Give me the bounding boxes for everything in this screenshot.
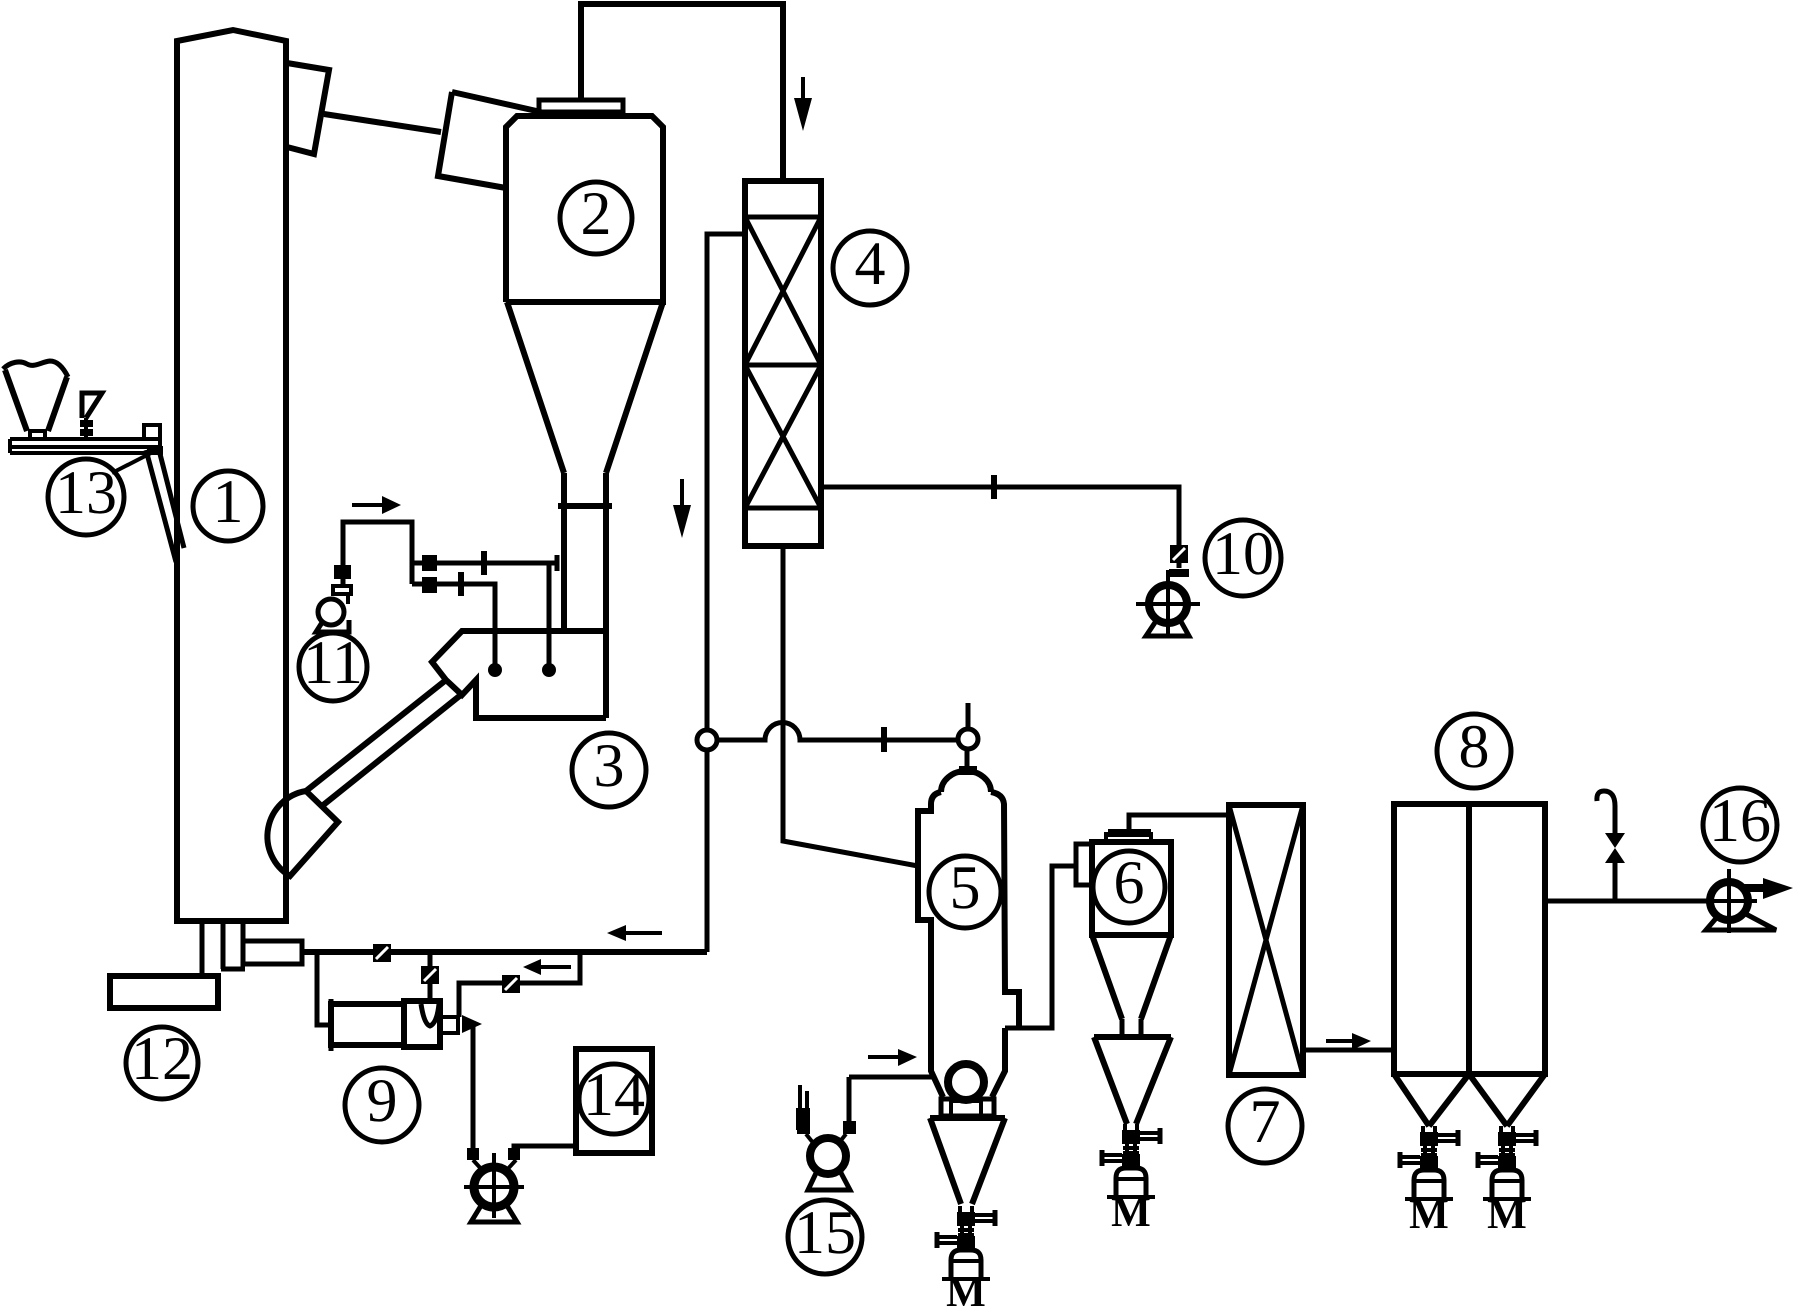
label circle 15	[788, 1200, 862, 1274]
svg-text:1: 1	[213, 468, 244, 536]
feeder 13 drop chute into column 1	[146, 450, 184, 562]
cyclone 2 cone	[507, 302, 663, 473]
gate valve on pipe A	[422, 555, 437, 571]
cyclone 2 body	[506, 116, 663, 302]
junction circle right on recycle pipe	[958, 729, 978, 749]
cyclone 6 lower hopper	[1094, 1037, 1171, 1124]
label circle 9	[345, 1068, 419, 1142]
label circle 1	[193, 471, 263, 541]
right arrow on venturi feed pipe	[868, 1055, 898, 1059]
packed scrubber 4 shell	[745, 181, 821, 546]
scrubber 4 right outlet pipe to pump 10	[821, 487, 1179, 568]
heat exchanger 7 cross diagonals	[1229, 805, 1303, 1075]
rotary valve under vessel 5	[948, 1064, 984, 1100]
label circle 6	[1093, 851, 1165, 923]
fan 16 (blower with cross)	[1710, 882, 1748, 920]
blower under feeder 9 (circle with cross)	[467, 1148, 479, 1160]
cyclone 6 body	[1092, 842, 1171, 935]
junction circle left on recycle pipe	[697, 730, 717, 750]
plus valve on outlet pipe	[991, 475, 997, 499]
svg-text:14: 14	[583, 1061, 645, 1129]
scrubber 4 bottom pipe down to venturi feed	[783, 546, 918, 866]
discharge pipe from blower to box 14	[514, 1146, 576, 1148]
cyclone 6 neck	[1122, 1019, 1141, 1037]
spray water pipe A (upper)	[412, 555, 557, 571]
branch pipe to rotary feeder 9 funnel	[428, 952, 433, 1004]
discharge assembly under cyclone 6	[1102, 1124, 1160, 1236]
inlet pipe to rotary feeder 9	[317, 952, 331, 1025]
square valve on bypass branch	[502, 975, 520, 993]
spray water pipe B (lower)	[412, 584, 495, 665]
left arrow on main bottom pipe	[626, 931, 662, 935]
label circle 3	[572, 733, 646, 807]
svg-text:M: M	[946, 1270, 986, 1312]
feeder 13 belt table	[10, 439, 160, 453]
heat exchanger 7 shell	[1229, 805, 1303, 1075]
label circle 12	[126, 1027, 198, 1099]
right arrow on pipe to filter 8	[1326, 1039, 1352, 1043]
base slab 12	[110, 976, 218, 1008]
gate valve on pipe B	[422, 577, 437, 593]
svg-text:16: 16	[1709, 787, 1771, 855]
rotary feeder 9 right housing	[404, 1001, 440, 1047]
conveyor line between chute A and chute B	[324, 114, 441, 132]
leader line label 13	[112, 452, 153, 473]
drop pipe from feeder 9 to blower	[471, 1026, 476, 1150]
bag filter 8 hoppers	[1394, 1074, 1545, 1126]
svg-text:8: 8	[1459, 713, 1490, 781]
cyclone 2 dip leg (downcomer)	[564, 506, 606, 718]
filter 8 outlet pipe to fan 16	[1545, 899, 1711, 904]
down arrow on top gas pipe	[801, 77, 805, 100]
plus valve on recycle pipe	[881, 727, 887, 752]
discharge assembly under vessel 5	[937, 1206, 995, 1312]
scrubber 4 packing X upper	[745, 217, 821, 365]
svg-text:M: M	[1409, 1192, 1449, 1238]
label circle 7	[1228, 1089, 1302, 1163]
square valve on feeder branch	[421, 966, 439, 984]
svg-text:12: 12	[131, 1025, 193, 1093]
label circle 2	[560, 182, 632, 254]
box 14	[576, 1049, 652, 1153]
svg-text:M: M	[1111, 1190, 1151, 1236]
pump 10 (blower with cross)	[1149, 585, 1187, 623]
chute A on column 1 top right	[287, 63, 329, 154]
vessel 5 bottom cone	[930, 1118, 1005, 1204]
pump 11 (circle pump)	[318, 599, 344, 625]
feeder 13 injector funnel	[82, 393, 102, 418]
left arrow on bypass branch	[541, 965, 571, 969]
chute 3 inclined double chute	[306, 680, 462, 806]
column 1 bottom legs	[202, 921, 245, 976]
cyclone 6 cone	[1092, 935, 1171, 1019]
label circle 14	[579, 1064, 649, 1134]
svg-text:15: 15	[794, 1199, 856, 1267]
discharge assembly under filter 8 right hopper	[1478, 1126, 1536, 1238]
square valve on main bottom pipe	[373, 944, 391, 962]
feeder 9 inner funnel	[421, 1004, 439, 1026]
label circle 13	[48, 459, 124, 535]
svg-text:13: 13	[55, 459, 117, 527]
bypass branch pipe to feeder 9 outlet	[459, 952, 580, 1017]
pump 15 (blower with two inlets)	[847, 1077, 852, 1127]
chute 3 discharge shoe	[267, 791, 338, 876]
venturi dryer 5 shell	[941, 771, 991, 792]
right arrow on pump 11 discharge	[352, 503, 382, 507]
branch of pipe A down into chute 3	[547, 563, 552, 665]
feeder 9 outlet nozzle and arrow	[440, 1017, 458, 1033]
chute B feeding cyclone 2	[438, 92, 541, 188]
svg-text:10: 10	[1212, 520, 1274, 588]
label circle 11	[299, 633, 367, 701]
furnace column 1 body	[177, 30, 286, 921]
svg-text:7: 7	[1250, 1088, 1281, 1156]
vessel 5 top nozzle	[965, 749, 970, 768]
bag filter 8 twin shell	[1394, 804, 1545, 1074]
svg-text:5: 5	[950, 854, 981, 922]
vessel 6 cyclone inlet box	[1076, 844, 1092, 885]
svg-text:M: M	[1487, 1192, 1527, 1238]
column 1 bottom outlet box	[243, 941, 302, 964]
plus valve on pipe A	[481, 551, 487, 575]
svg-text:4: 4	[855, 230, 886, 298]
recycle pipe y=740 with jump over downpipe	[717, 723, 958, 741]
cyclone 6 lid	[1106, 834, 1151, 842]
svg-text:11: 11	[303, 629, 363, 697]
top gas pipe from cyclone 2 to scrubber 4	[581, 4, 783, 181]
vent stack with valve on outlet pipe	[1613, 861, 1618, 901]
scrubber 4 packing X lower	[745, 365, 821, 508]
pipe exchanger 7 to bag filter 8	[1303, 1048, 1394, 1053]
square valve above pump 10	[1170, 545, 1188, 563]
feed hopper 13 cone	[5, 370, 67, 431]
scrubber 4 side pipe to downleg	[707, 234, 745, 952]
svg-text:2: 2	[581, 180, 612, 248]
cyclone 6 gas outlet pipe to exchanger 7	[1129, 815, 1230, 834]
label circle 5	[929, 856, 1001, 928]
down arrow beside downleg pipe	[680, 479, 684, 507]
label circle 8	[1437, 714, 1511, 788]
cyclone 2 collar and flange	[558, 473, 612, 506]
svg-text:6: 6	[1114, 849, 1145, 917]
pump 11 discharge pipe with valve	[343, 522, 412, 586]
label circle 4	[833, 231, 907, 305]
rotary feeder 9 cylinder	[331, 1004, 404, 1045]
pump 10 inlet flange	[1169, 569, 1189, 577]
cyclone 2 top flange	[539, 100, 623, 112]
label circle 10	[1205, 520, 1281, 596]
plus valve on pipe B	[458, 572, 464, 596]
scrubber 4 packing section lines	[745, 217, 821, 508]
fan 16 outlet arrow	[1741, 884, 1763, 892]
stub pipe above right junction circle	[966, 703, 971, 729]
svg-text:3: 3	[594, 732, 625, 800]
discharge assembly under filter 8 left hopper	[1400, 1126, 1458, 1238]
feed pipe to venturi 5 lower inlet	[849, 1075, 933, 1080]
main bottom pipe from outlet box to downleg	[302, 949, 707, 955]
label circle 16	[1703, 788, 1777, 862]
svg-text:9: 9	[367, 1067, 398, 1135]
vessel 5 outlet duct to cyclone 6	[1005, 866, 1076, 1028]
chute 3 duct box	[432, 631, 606, 718]
